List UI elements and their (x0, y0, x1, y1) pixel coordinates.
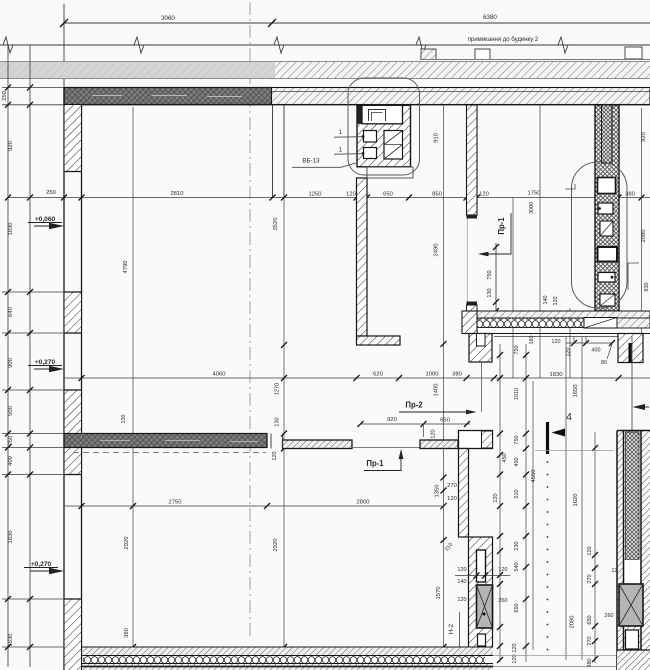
svg-text:160: 160 (529, 336, 535, 345)
svg-text:4: 4 (566, 411, 572, 423)
svg-text:1250: 1250 (309, 192, 322, 198)
existing building strip left (gray) (0, 62, 275, 79)
svg-text:1750: 1750 (528, 191, 541, 197)
svg-text:450: 450 (514, 457, 520, 466)
upper wall band right (hatched) (272, 88, 650, 105)
svg-text:250: 250 (8, 436, 14, 446)
dim ext line x=443.5 (443, 105, 445, 647)
break symbol (416, 37, 426, 53)
svg-text:400: 400 (592, 348, 601, 354)
svg-text:2920: 2920 (124, 537, 130, 550)
chain labels left column (493, 388, 520, 664)
W1 pier hatch 1 (65, 105, 81, 171)
svg-text:4790: 4790 (123, 261, 129, 274)
pilaster 3 (625, 47, 642, 59)
svg-text:650: 650 (383, 192, 393, 198)
corridor guide line x=513 (512, 198, 514, 379)
svg-text:Пр-1: Пр-1 (366, 459, 384, 468)
W1 cap (64, 171, 82, 173)
svg-text:80: 80 (601, 360, 607, 366)
W5b slot 2 (478, 634, 486, 646)
svg-text:1350: 1350 (435, 485, 441, 498)
svg-text:650: 650 (514, 603, 520, 612)
corridor faint line y=450 (535, 450, 614, 452)
dim line y=378 (64, 377, 650, 379)
extension line axis A (63, 4, 65, 88)
W3 jamb cap (467, 215, 478, 219)
svg-text:140: 140 (457, 579, 466, 585)
tick (268, 19, 276, 27)
break symbol (558, 37, 568, 53)
section mark 4 bar (546, 422, 549, 454)
chain line x=500 (499, 344, 501, 662)
W4 duct square 1 (598, 178, 616, 194)
vent big duct right (384, 131, 403, 160)
W4 duct rect 2 with dot (598, 203, 613, 214)
chain line x=533 (4550) (532, 381, 534, 650)
chain line x=526 (525, 344, 527, 662)
dim line 3060/6380 (64, 22, 650, 24)
right chain line x=641.5 (641, 108, 643, 333)
RW gap white (625, 560, 641, 584)
corridor line y=655 (493, 655, 617, 657)
wall band inner line (272, 91, 650, 93)
svg-text:910: 910 (434, 133, 440, 143)
dim line x=496 (750/130) (495, 243, 497, 313)
break symbol (3, 37, 13, 53)
svg-text:260: 260 (604, 613, 613, 619)
svg-text:3520: 3520 (273, 218, 279, 231)
pilaster 1 (421, 49, 436, 60)
small rect below block (367, 167, 413, 178)
gap verticals near band end (270, 434, 272, 449)
svg-text:Н-2: Н-2 (448, 623, 455, 634)
elevation mark +0,270 (28, 359, 64, 372)
W3 lower jamb (467, 302, 478, 306)
svg-text:3060: 3060 (161, 15, 175, 22)
bathroom wall line x=284 (283, 105, 285, 198)
vent block top inner duct (369, 110, 386, 122)
RW bottom hatch (617, 650, 650, 670)
svg-text:1620: 1620 (573, 494, 579, 507)
break symbol (274, 37, 284, 53)
svg-text:120: 120 (457, 567, 466, 573)
mini dim line y=575 (455, 575, 510, 577)
duct diagonals (384, 131, 403, 145)
svg-text:120: 120 (498, 567, 507, 573)
svg-text:+0,060: +0,060 (35, 216, 56, 223)
right wall RW body (617, 431, 650, 651)
svg-text:900: 900 (8, 358, 14, 368)
arrow to line x=632 (631, 337, 633, 431)
svg-text:130: 130 (487, 288, 493, 297)
dim line y=506 (64, 505, 444, 507)
leader hook right (628, 263, 639, 290)
W1 pier hatch 3 (65, 390, 81, 434)
svg-text:2810: 2810 (171, 191, 184, 197)
tick rows (2, 88, 64, 648)
svg-text:250: 250 (2, 91, 8, 101)
band U rect w/ diagonal (584, 318, 617, 329)
svg-text:+0,270: +0,270 (31, 561, 52, 568)
svg-text:640: 640 (8, 307, 14, 317)
svg-text:120: 120 (479, 192, 489, 198)
svg-text:260: 260 (498, 598, 507, 604)
svg-text:6380: 6380 (483, 14, 497, 21)
svg-text:830: 830 (644, 282, 650, 291)
svg-text:380: 380 (124, 628, 130, 638)
leader hook top (565, 184, 575, 189)
wall W3 upper pier (467, 105, 478, 215)
svg-text:2800: 2800 (357, 500, 370, 506)
svg-text:1650: 1650 (573, 385, 579, 398)
centerline axis (249, 2, 251, 640)
wall W5b (469, 537, 493, 648)
elevation mark +0,060 (28, 216, 64, 229)
mini dim y=343 (566, 342, 613, 344)
svg-text:Пр-2: Пр-2 (405, 401, 423, 410)
svg-text:270: 270 (587, 574, 593, 583)
svg-text:1270: 1270 (275, 383, 281, 395)
svg-text:510: 510 (514, 489, 520, 498)
svg-text:130: 130 (275, 417, 281, 426)
svg-text:120: 120 (346, 192, 356, 198)
labels on x=284 (272, 383, 281, 461)
elevation mark +0,270 lower (24, 561, 64, 574)
svg-text:2750: 2750 (169, 500, 182, 506)
section dotted line (547, 461, 549, 650)
wall W1 outer face (63, 88, 65, 670)
RW lintel block (gray X) (619, 584, 643, 626)
svg-text:130: 130 (121, 415, 127, 424)
svg-text:620: 620 (373, 372, 383, 378)
band U insulation (477, 318, 584, 328)
step wall rect at junction (459, 431, 493, 449)
svg-text:120: 120 (493, 493, 499, 502)
svg-text:540: 540 (514, 562, 520, 571)
bathroom wall line x=272.5 (272, 105, 274, 198)
svg-text:120: 120 (512, 643, 518, 652)
W4 X box 2 (600, 294, 615, 306)
W2 foot (357, 336, 401, 345)
svg-text:920: 920 (8, 141, 14, 151)
svg-text:4060: 4060 (213, 372, 226, 378)
svg-text:270: 270 (447, 483, 457, 489)
W4 flue channel top (602, 105, 613, 163)
svg-text:1000: 1000 (426, 372, 439, 378)
svg-text:1010: 1010 (514, 388, 520, 400)
RW channel cross-hatch (626, 432, 640, 560)
vent block top chamber (362, 105, 403, 124)
floor hatch band (83, 648, 493, 656)
dim ext line x=284 (283, 198, 285, 507)
svg-text:+0,270: +0,270 (35, 359, 56, 366)
corridor guide line x=570 (569, 308, 571, 378)
vent block left bar (358, 106, 363, 124)
chain rail inner (29, 45, 31, 667)
slashes on rails (5, 85, 33, 651)
svg-text:2490: 2490 (434, 244, 440, 257)
hidden line below D2 (73, 452, 266, 454)
block BL below band (469, 334, 492, 363)
svg-text:ВБ-13: ВБ-13 (302, 158, 320, 165)
duct 1 dot (362, 135, 365, 138)
door threshold Pr-1 (352, 447, 420, 449)
W5b lintel block N-2 (gray X) (477, 585, 493, 628)
dim ext line x=133 lower (132, 448, 134, 648)
strip borders (0, 61, 650, 63)
corridor top line (494, 336, 618, 338)
pilaster 2 (475, 49, 490, 60)
svg-text:120: 120 (566, 348, 572, 357)
svg-text:120: 120 (457, 597, 466, 603)
svg-text:400: 400 (8, 456, 14, 466)
svg-text:2080: 2080 (570, 616, 576, 629)
svg-text:1570: 1570 (436, 587, 442, 600)
break symbol (134, 37, 144, 53)
demolished wall band (dark) (64, 88, 272, 105)
svg-text:920: 920 (387, 417, 397, 423)
svg-text:1830: 1830 (8, 531, 14, 544)
right chain x=595 (594, 432, 596, 663)
vent duct square 2 (364, 148, 377, 159)
horizontal labels near W5b (457, 567, 507, 604)
thin wall piece B (420, 440, 458, 449)
opening face line x=481.5 (481, 346, 483, 412)
svg-text:380: 380 (452, 372, 462, 378)
thin wall piece A (y=440) (283, 440, 353, 449)
floor insulation band (83, 656, 485, 664)
W3 opening face line (466, 219, 468, 302)
RW channel borders (623, 431, 625, 661)
floor lower hatch (83, 664, 493, 670)
svg-text:Пр-1: Пр-1 (497, 217, 506, 235)
W1 pier hatch 2 (65, 292, 81, 333)
W1 pier hatch 4 (65, 448, 81, 475)
svg-text:2080: 2080 (641, 230, 647, 243)
W5b slot 1 (477, 550, 486, 582)
dim line y=197.5 (8, 197, 650, 199)
vent duct square 1 (364, 131, 377, 143)
tick (60, 19, 68, 27)
svg-text:1830: 1830 (550, 372, 563, 378)
band U bottom line (467, 333, 650, 335)
band U corner block (462, 311, 477, 334)
svg-text:850: 850 (432, 192, 442, 198)
block BR below band (618, 334, 643, 363)
corridor guide line x=540 (539, 105, 541, 378)
partition wall W2 (357, 178, 368, 336)
white dashes in dark band (92, 96, 242, 97)
dim line y=424 (920/650) (361, 423, 471, 425)
labels on y=197.5 (46, 190, 635, 198)
svg-text:450: 450 (502, 453, 508, 462)
floor thick line (82, 666, 494, 668)
svg-text:140: 140 (543, 296, 549, 305)
svg-text:120: 120 (553, 297, 559, 306)
svg-text:230: 230 (514, 541, 520, 550)
band U right hatch (617, 318, 650, 328)
dim ext line x=284 lower (283, 506, 285, 647)
wall band D2 (dark) (64, 434, 267, 448)
BL white notch (477, 334, 486, 347)
dim ext line x=133 (132, 107, 134, 434)
svg-text:120: 120 (272, 451, 278, 460)
svg-text:750: 750 (487, 270, 493, 279)
svg-text:270: 270 (587, 636, 593, 645)
floor slab top line (82, 646, 494, 648)
svg-text:2920: 2920 (273, 539, 279, 552)
W4 X box 1 (600, 221, 613, 236)
section bar top (629, 343, 632, 363)
svg-text:1830: 1830 (8, 634, 14, 647)
svg-text:1830: 1830 (8, 223, 14, 236)
svg-text:1: 1 (339, 129, 343, 136)
svg-text:750: 750 (514, 346, 520, 355)
wall W4 body (595, 105, 619, 311)
vent block VB-13 body (357, 105, 411, 167)
svg-text:650: 650 (587, 615, 593, 624)
wall W1 inner face (81, 105, 83, 670)
section arrow (552, 429, 566, 437)
step hatch part (482, 431, 493, 448)
stadium outline S2 (572, 162, 628, 308)
svg-text:120: 120 (431, 429, 437, 438)
svg-text:120: 120 (587, 546, 593, 555)
chain rail outer (7, 45, 9, 667)
svg-text:120: 120 (447, 496, 457, 502)
W1 pier hatch 5 (65, 599, 81, 670)
N-2 dot (483, 613, 486, 616)
svg-text:500: 500 (8, 406, 14, 416)
svg-text:120: 120 (552, 339, 561, 345)
stadium outline S1 (vent zone) (348, 78, 420, 175)
W4 duct rect with dot 2 (598, 273, 615, 283)
svg-text:3000: 3000 (529, 202, 535, 214)
corridor verticals x=566 x=582 (565, 337, 567, 661)
wall band bottom line (64, 104, 650, 106)
band U hatch (467, 311, 650, 318)
wall W5a (459, 449, 469, 538)
boundary line building 2 (0, 44, 650, 46)
svg-text:1: 1 (339, 147, 343, 154)
chain slashes (497, 352, 529, 663)
W4 thick square (598, 247, 618, 262)
svg-text:4550: 4550 (531, 470, 537, 483)
svg-text:250: 250 (46, 190, 56, 196)
svg-text:1400: 1400 (434, 384, 440, 397)
white dashes in D2 (100, 441, 258, 442)
existing building strip right (hatched) (275, 62, 650, 79)
svg-text:750: 750 (514, 435, 520, 444)
svg-text:примикання до будинку 2: примикання до будинку 2 (468, 37, 539, 43)
building 2 face line (420, 59, 650, 61)
svg-text:650: 650 (440, 418, 450, 424)
duct 2 dot (362, 152, 365, 155)
corridor bottom line (493, 666, 617, 668)
slashes (61, 195, 645, 201)
rotated chain labels (2, 91, 14, 646)
RW slot white (626, 630, 639, 649)
svg-text:920: 920 (641, 132, 647, 142)
